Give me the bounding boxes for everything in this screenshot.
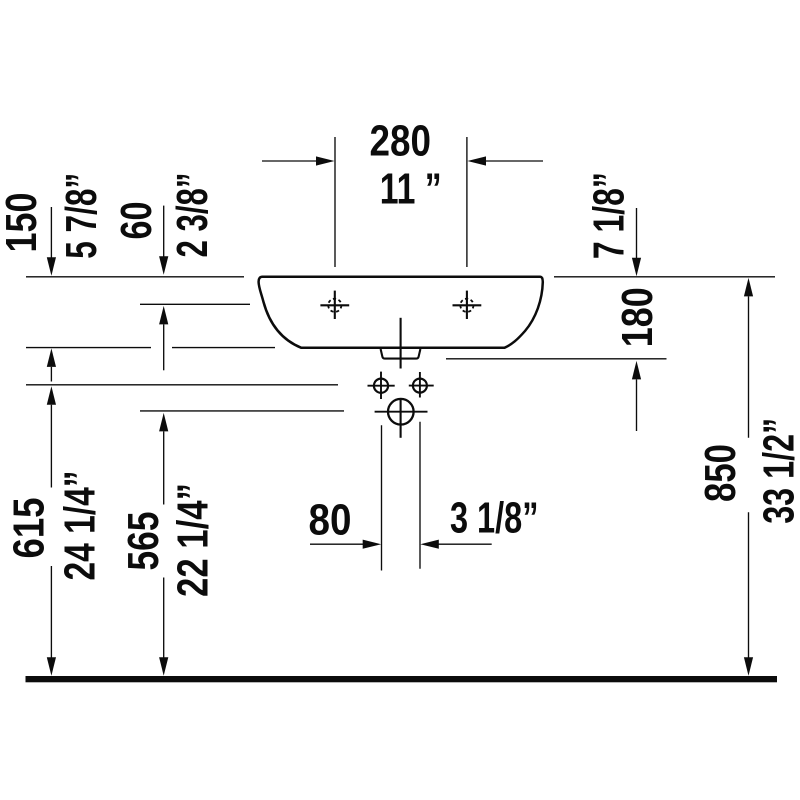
floor line: [26, 676, 778, 682]
svg-text:2 3/8”: 2 3/8”: [168, 173, 217, 258]
line 180 below rim: [446, 358, 667, 360]
dim 150 upper arrow: [50, 207, 52, 258]
line 60 below rim: [140, 303, 250, 305]
dim 60 lower arrow: [159, 306, 168, 325]
svg-text:5 7/8”: 5 7/8”: [57, 173, 106, 259]
svg-text:24 1/4”: 24 1/4”: [56, 471, 105, 581]
svg-text:33 1/2”: 33 1/2”: [755, 418, 800, 524]
dim 150 lower arrow: [47, 348, 56, 367]
centerline lower: [400, 398, 402, 437]
basin outline: [259, 277, 543, 348]
dim 850 bottom arrow: [748, 512, 750, 657]
dim 280 extension line right: [466, 137, 468, 267]
drain hole circle: [375, 399, 428, 425]
svg-text:22 1/4”: 22 1/4”: [169, 483, 218, 597]
dim 280 extension line left: [334, 137, 336, 267]
drain tab: [381, 349, 421, 359]
mounting hole right: [409, 372, 434, 398]
dim 280 right arrow: [471, 160, 543, 162]
dim 850 top arrow: [744, 278, 753, 297]
line 565 above floor: [140, 410, 344, 412]
faucet cross left: [320, 291, 349, 319]
dim 80 extension line right: [419, 422, 421, 569]
svg-text:3 1/8”: 3 1/8”: [450, 494, 539, 543]
faucet cross right: [453, 291, 482, 319]
dim 565 top arrow: [159, 413, 168, 432]
svg-text:850: 850: [696, 444, 745, 502]
dim 615 bottom arrow: [50, 566, 52, 658]
svg-text:615: 615: [5, 498, 54, 559]
svg-text:60: 60: [112, 202, 161, 240]
mounting hole left: [368, 372, 395, 399]
svg-text:280: 280: [370, 116, 432, 165]
line 150 below rim (right part): [172, 347, 275, 349]
line 615 above floor: [26, 384, 338, 386]
dim 565 bottom arrow: [163, 578, 165, 658]
dim 615 top arrow: [47, 386, 56, 405]
dim 280 left arrow: [262, 160, 331, 162]
dim 80 right arrow: [437, 543, 492, 545]
dim 80 left arrow: [310, 543, 365, 545]
dim 180 lower arrow: [632, 361, 641, 380]
svg-text:150: 150: [0, 193, 46, 253]
centerline upper: [400, 318, 402, 369]
line 150 below rim (left part): [26, 347, 151, 349]
svg-text:80: 80: [309, 496, 352, 545]
svg-text:565: 565: [119, 512, 168, 571]
svg-text:7 1/8”: 7 1/8”: [585, 172, 634, 259]
dim 180 upper arrow: [636, 208, 638, 258]
rim extension line right: [554, 276, 775, 278]
dim 60 upper arrow: [163, 206, 165, 257]
dim 80 extension line left: [381, 425, 383, 570]
svg-text:11 ”: 11 ”: [380, 165, 442, 214]
rim extension line left: [26, 276, 244, 278]
svg-text:180: 180: [613, 287, 662, 347]
